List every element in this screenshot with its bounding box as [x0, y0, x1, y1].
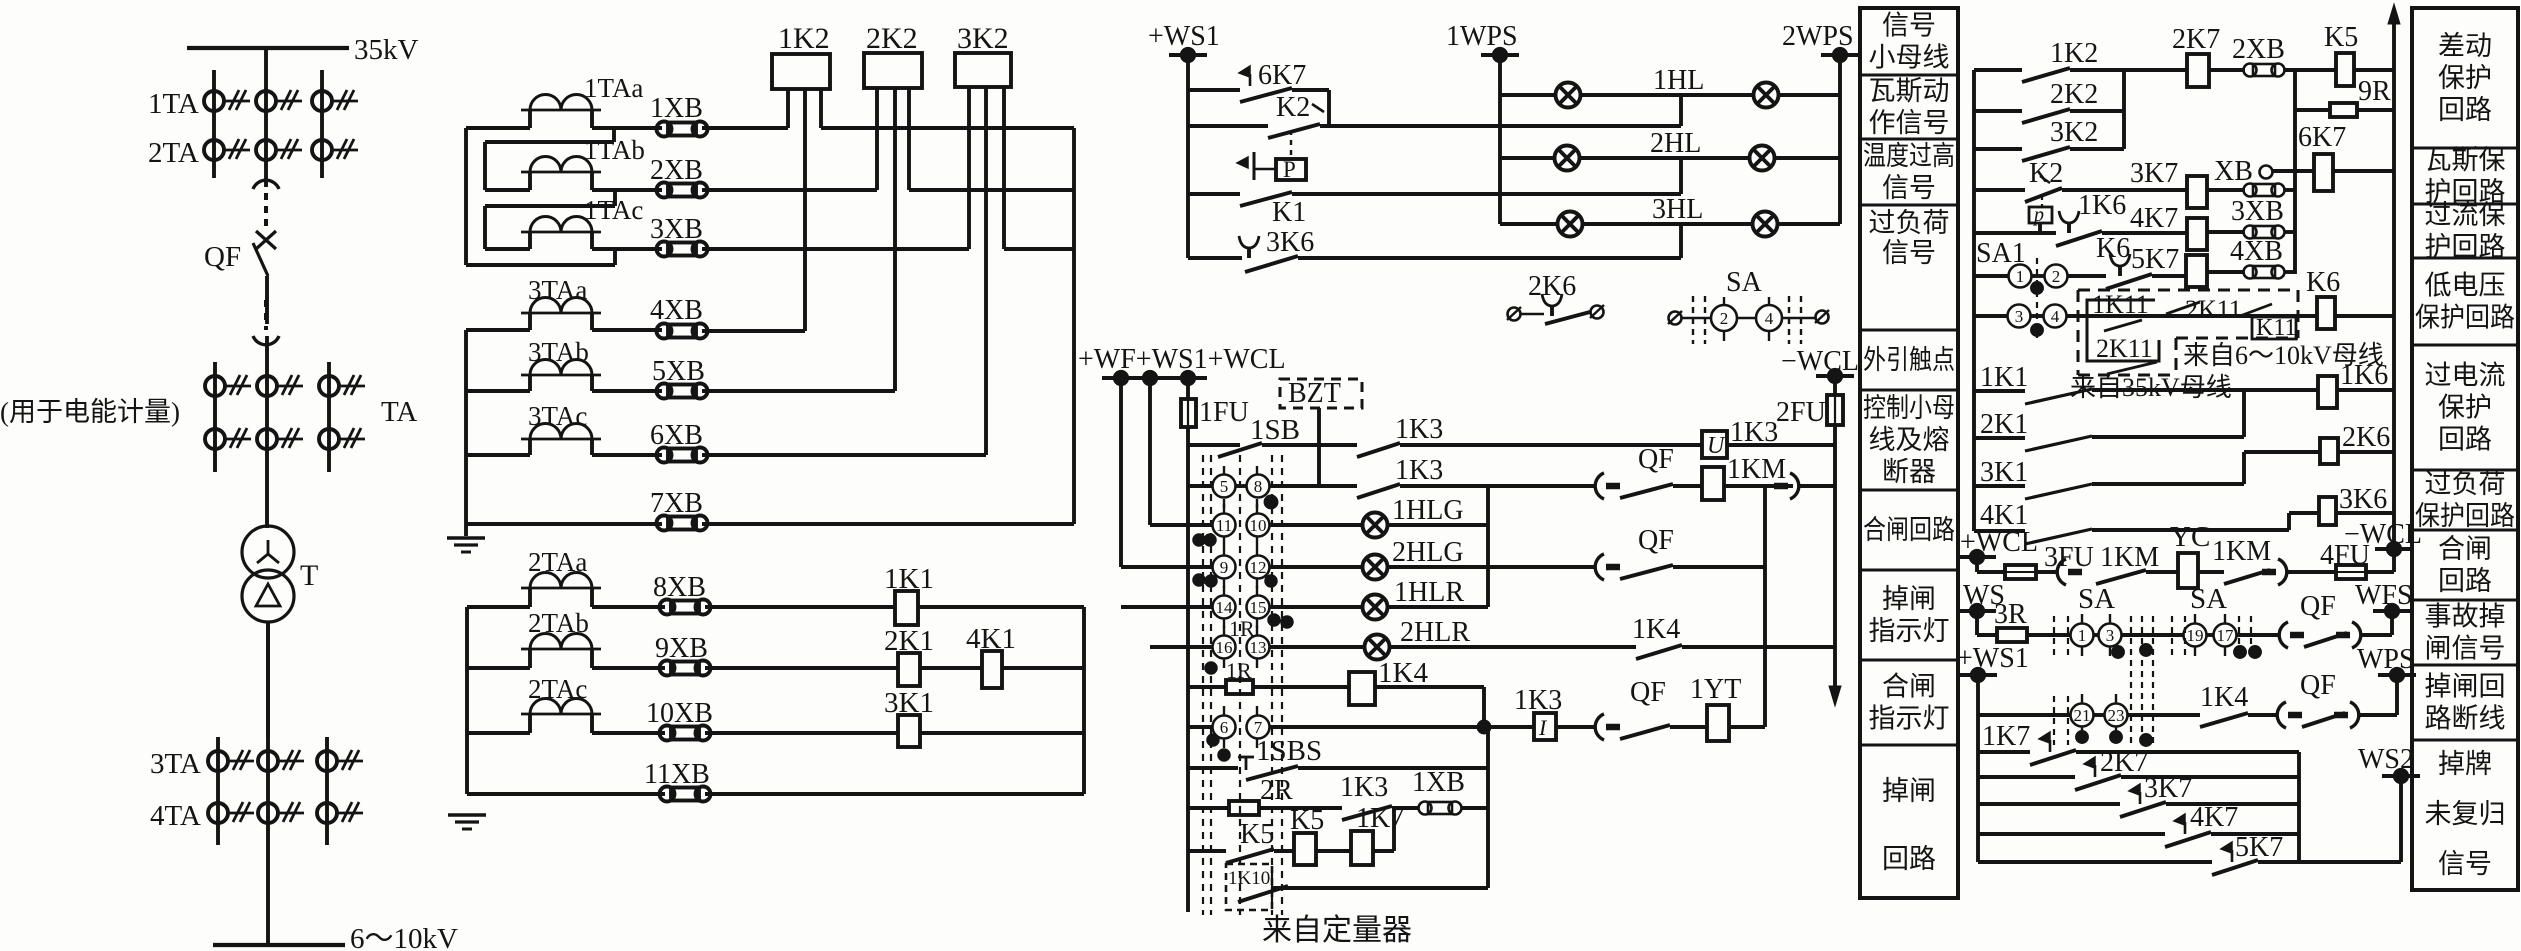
current transformer 3TA b: [258, 751, 278, 771]
svg-text:−WCL: −WCL: [1781, 346, 1859, 377]
svg-text:3TA: 3TA: [150, 748, 201, 780]
relay coil 3K6: [2319, 497, 2336, 525]
wire to 4FU: [2288, 570, 2336, 574]
junction dot 8 below: [1266, 497, 1277, 508]
svg-text:9R: 9R: [2358, 76, 2391, 107]
wire 1K7 right: [2076, 750, 2299, 754]
wire 1K2 pin1: [786, 89, 790, 128]
wire 7 to junction: [1269, 725, 1484, 729]
svg-text:16: 16: [1216, 638, 1233, 657]
resistor 9R: [2330, 103, 2357, 117]
wire sa to 19: [2121, 633, 2184, 637]
contact 4K7 signal: [2174, 814, 2185, 825]
wire signal plus bus: [1972, 70, 1976, 531]
wire 7XB row left: [466, 522, 662, 526]
wire 11XB row left: [467, 792, 665, 796]
svg-text:K1: K1: [1272, 197, 1306, 228]
wire to metering CTs: [265, 336, 269, 362]
svg-text:K5: K5: [2324, 22, 2358, 53]
switch SA contact 8: [1247, 475, 1270, 498]
contact 2K11 upper: [2166, 302, 2200, 314]
wire 3TA column left: [216, 737, 220, 845]
svg-text:K11: K11: [2256, 315, 2296, 341]
wire 3K1 row: [2092, 482, 2244, 486]
wire 4XB to vertical: [2284, 270, 2295, 274]
switch SA grid ticks control: [1223, 466, 1225, 475]
breaker aux QF trip: [1595, 714, 1604, 740]
switch SA contact 16: [1213, 636, 1236, 659]
wire 9-12 row left: [1121, 565, 1213, 569]
current transformer 1TA phase A: [204, 91, 224, 111]
wire 4K7 to 3XB: [2207, 230, 2245, 234]
current transformer 2TA phase A: [204, 140, 224, 160]
metering CT row1 b: [257, 376, 277, 396]
lamp 1HLR: [1363, 595, 1388, 620]
terminal link 1XB: [657, 122, 672, 137]
wire +WCL below fuse: [1186, 427, 1190, 912]
svg-text:信号: 信号: [1882, 238, 1936, 268]
wire +WCL down: [1975, 557, 1979, 572]
wire 3TAc leads: [528, 439, 532, 455]
svg-text:合闸: 合闸: [1882, 672, 1936, 702]
wire 3XB to vertical: [2284, 230, 2295, 234]
svg-text:断器: 断器: [1882, 457, 1936, 487]
svg-text:未复归: 未复归: [2425, 799, 2506, 829]
svg-text:3: 3: [2015, 307, 2024, 326]
CT winding 1TAa: [521, 109, 601, 112]
relay coil 3K1: [898, 715, 920, 747]
svg-text:6: 6: [1220, 718, 1229, 737]
wire 2K6 row: [2244, 450, 2320, 454]
wire 17 to QF: [2236, 633, 2280, 637]
svg-text:1K4: 1K4: [1378, 657, 1428, 689]
wire K2 row: [1188, 124, 1268, 128]
wire 2K2 pin1: [875, 88, 879, 190]
svg-text:BZT: BZT: [1288, 378, 1341, 409]
svg-text:QF: QF: [204, 241, 241, 273]
lamp 2HLG: [1363, 555, 1388, 580]
wire 1TAc right lead: [590, 232, 594, 249]
wire 3K6 row: [2289, 511, 2319, 515]
wire 2WPS vertical: [1838, 55, 1842, 224]
wire sa gap1: [2093, 633, 2099, 637]
svg-text:控制小母: 控制小母: [1863, 393, 1955, 423]
node WS2: [2382, 774, 2420, 778]
svg-text:10XB: 10XB: [646, 698, 713, 729]
svg-text:回路: 回路: [2438, 95, 2492, 125]
switch SA1 contact 4: [2044, 305, 2067, 328]
contact K11: [2240, 304, 2272, 316]
contact 1K11: [2104, 320, 2142, 331]
svg-text:回路: 回路: [1882, 844, 1936, 874]
svg-text:10: 10: [1250, 516, 1267, 535]
wire 1XB row to 1K2: [702, 126, 788, 130]
wire 3TA star bus: [464, 330, 468, 536]
wire 4 to K11 box: [2066, 314, 2317, 318]
svg-text:信号: 信号: [1882, 173, 1936, 203]
wire drop K2 to 1HL: [1679, 95, 1683, 126]
svg-text:5K7: 5K7: [2131, 244, 2179, 275]
relay 1K10 dashed box: [1226, 864, 1272, 910]
wire 21-23 gap: [2093, 713, 2105, 717]
fuse 4FU: [2336, 565, 2366, 579]
wire 1K6 row: [1974, 231, 2056, 235]
fuse 2FU: [1827, 395, 1843, 425]
wire 1K1 stub: [1974, 389, 2025, 393]
svg-text:SA: SA: [1726, 267, 1763, 298]
svg-text:2K7: 2K7: [2172, 24, 2220, 55]
wire 1K3 to 1XB: [1392, 806, 1418, 810]
contact K5: [1226, 849, 1274, 863]
pushbutton 1SB: [1218, 443, 1262, 457]
wire 9XB row: [705, 666, 898, 670]
thermal sensor element: [1253, 152, 1256, 180]
wire 4FU to -WCL: [2366, 570, 2394, 574]
breaker QF cross mark: [256, 231, 276, 249]
svg-text:3R: 3R: [1994, 599, 2027, 630]
svg-text:1K11: 1K11: [2092, 290, 2149, 319]
wire K1 to 2HL drop: [1292, 192, 1681, 196]
contact 6K7: [1239, 66, 1250, 77]
wire 6K7 to bus: [2333, 169, 2394, 173]
svg-text:4XB: 4XB: [650, 295, 703, 326]
node +WS1: [1169, 53, 1207, 57]
wire 5K7 to 4XB: [2207, 270, 2245, 274]
terminal link 1XB small: [1419, 802, 1432, 815]
switch SA contact 9: [1213, 556, 1236, 579]
wire K1 row: [1188, 192, 1240, 196]
wire XB to 6K7: [2273, 169, 2314, 173]
terminal link 11XB: [660, 787, 675, 802]
wire link to vertical: [2284, 188, 2295, 192]
relay coil 1K3 U: [1702, 431, 1727, 458]
wire K7 ladder vertical: [2297, 752, 2301, 862]
svg-text:指示灯: 指示灯: [1869, 616, 1950, 646]
svg-text:过负荷: 过负荷: [1869, 208, 1950, 238]
svg-text:13: 13: [1250, 638, 1267, 657]
wire transformer to 3TA: [266, 622, 270, 737]
breaker aux QF wps: [2277, 702, 2286, 728]
fuse 1FU: [1181, 399, 1196, 427]
svg-text:K2: K2: [1276, 92, 1310, 123]
wire 1TA-3TA return bus: [1072, 128, 1076, 524]
svg-text:15: 15: [1250, 598, 1267, 617]
svg-text:1HLG: 1HLG: [1392, 495, 1464, 526]
wire 1K2 row: [1974, 68, 2022, 72]
svg-text:过电流: 过电流: [2425, 361, 2506, 391]
svg-text:6K7: 6K7: [2298, 122, 2346, 153]
wire +WS1 vertical control: [1148, 378, 1152, 525]
contactor coil 1KM: [1702, 467, 1724, 500]
svg-text:2TAb: 2TAb: [528, 608, 589, 638]
wire 2K1 stub: [1974, 436, 2025, 440]
svg-text:1K3: 1K3: [1514, 685, 1562, 716]
switch SA trip 19: [2184, 624, 2207, 647]
wire 1HLG right: [1388, 523, 1488, 527]
switch SA1 contact 2: [2045, 265, 2068, 288]
spare switch SA contacts: [1669, 312, 1682, 325]
svg-text:1SB: 1SB: [1250, 414, 1300, 446]
svg-text:4: 4: [2051, 307, 2060, 326]
wire 6K7 branch: [1188, 88, 1240, 92]
svg-text:1: 1: [2016, 267, 2025, 286]
wire +WS1 vertical: [1186, 55, 1190, 258]
contact K2 temperature: [1268, 124, 1320, 138]
ground 2TA star: [448, 813, 486, 816]
contact 1K3 relay: [1342, 806, 1392, 820]
switch SA position dots: [1194, 535, 1204, 545]
wire 1TAb left lead: [528, 172, 532, 190]
wire 3R to SA: [2027, 633, 2071, 637]
wire 2K6 to bus: [2338, 450, 2394, 454]
relay coil 2K2: [864, 53, 922, 88]
switch SA contact 12: [1247, 556, 1270, 579]
ground 3TA star: [447, 536, 485, 539]
wire WS2 riser: [2399, 776, 2403, 862]
wire K2 row right: [1974, 188, 2025, 192]
svg-text:1K10: 1K10: [1228, 868, 1270, 889]
wire 1K2 pin3: [819, 89, 823, 128]
node WFS: [2373, 609, 2411, 613]
wire 1SBS right: [1298, 766, 1488, 770]
wire 8 to 1K3: [1269, 484, 1357, 488]
wire 3FU to 1KM: [2036, 570, 2058, 574]
switch SA contact 6: [1213, 716, 1236, 739]
wire 12 to lamp: [1269, 565, 1362, 569]
lamp 1HL white left: [1556, 83, 1581, 108]
wire 1K7 up to 2R row: [1373, 849, 1394, 853]
relay coil 2K6: [2320, 438, 2338, 464]
wire K5 row left: [1188, 849, 1226, 853]
CT winding 1TAb: [521, 171, 601, 174]
svg-text:小母线: 小母线: [1869, 43, 1950, 73]
svg-text:瓦斯动: 瓦斯动: [1869, 76, 1950, 106]
contact 1K3 closing: [1357, 443, 1400, 457]
svg-text:1TA: 1TA: [148, 88, 199, 120]
wire 3XB row to 3K2: [702, 247, 969, 251]
wire 1K2 to 2K7: [2070, 68, 2187, 72]
wire 3K1 to bus: [920, 731, 1084, 735]
wire 5-8 row left: [1188, 484, 1213, 488]
wire 5K7 right: [2258, 860, 2401, 864]
wire SA1 row1: [1974, 274, 2009, 278]
svg-text:低电压: 低电压: [2425, 271, 2506, 301]
resistor 3R: [1997, 628, 2027, 642]
svg-text:1SBS: 1SBS: [1256, 735, 1322, 767]
wire 1K7 row: [1978, 750, 2030, 754]
terminal link 3XB right: [2244, 226, 2257, 239]
terminal link 4XB: [657, 324, 672, 339]
bus 35kV: [187, 46, 349, 50]
svg-text:1K3: 1K3: [1340, 772, 1388, 803]
current transformer 3TA a: [208, 751, 228, 771]
wire K6 to 5K7: [2152, 274, 2186, 278]
svg-text:合闸: 合闸: [2438, 534, 2492, 564]
wire signal return bus with arrow: [2392, 14, 2396, 549]
switch SA trip 21: [2071, 704, 2094, 727]
wire 1SB row: [1188, 443, 1240, 447]
svg-text:2K6: 2K6: [1528, 271, 1576, 302]
wire 2K7 right: [2121, 775, 2299, 779]
wire to YC: [2146, 570, 2178, 574]
current transformer 1TA phase B: [256, 91, 276, 111]
wire 4K7 right: [2211, 832, 2299, 836]
svg-text:WPS: WPS: [2357, 644, 2415, 675]
svg-text:掉牌: 掉牌: [2438, 749, 2492, 779]
svg-text:2XB: 2XB: [2232, 34, 2285, 65]
wire K7 collect vertical: [2293, 70, 2297, 274]
drawout contact upper: [253, 180, 279, 189]
svg-text:1K3: 1K3: [1395, 455, 1443, 486]
svg-text:2K2: 2K2: [2050, 79, 2098, 110]
wire 3HL row mid: [1583, 222, 1752, 226]
relay coil 1K2: [772, 54, 830, 89]
svg-text:23: 23: [2108, 706, 2125, 725]
wire 2K7 row: [1978, 775, 2075, 779]
arrow -WCL down: [1829, 686, 1841, 706]
svg-text:9XB: 9XB: [655, 633, 708, 664]
wire 5-8 gap: [1235, 484, 1247, 488]
svg-text:1KM: 1KM: [2212, 536, 2271, 567]
wire 3K7 to link: [2207, 188, 2245, 192]
svg-text:1TAa: 1TAa: [584, 73, 643, 103]
relay coil 1K1: [895, 591, 918, 625]
wire drop K1 to 2HL: [1679, 158, 1683, 194]
wire 1K2 out to return bus: [821, 126, 1074, 130]
wire 1TAc left lead: [528, 232, 532, 249]
wire K5 to coil: [1274, 849, 1294, 853]
wire lamp return vertical: [1486, 486, 1490, 607]
wire 4K1 row: [2092, 528, 2289, 532]
node +WCL: [1169, 376, 1207, 380]
svg-text:2K1: 2K1: [884, 625, 934, 657]
wire 2TA return bus: [1082, 607, 1086, 794]
wire 2TAc leads: [528, 714, 532, 733]
wire QF to 1YT: [1670, 725, 1707, 729]
contact 4K1 trip: [2025, 529, 2092, 544]
svg-text:差动: 差动: [2438, 31, 2492, 61]
lamp 2HLR: [1365, 635, 1390, 660]
svg-text:3HL: 3HL: [1652, 194, 1703, 225]
wire WS down: [1975, 611, 1979, 635]
wire 3K2 pin1: [967, 87, 971, 249]
terminal link 6XB: [657, 448, 672, 463]
switch SA contact 11: [1213, 514, 1236, 537]
svg-text:WS2: WS2: [2358, 744, 2414, 775]
terminal link 8XB: [660, 600, 675, 615]
wire 2R row left: [1188, 806, 1229, 810]
svg-text:闸信号: 闸信号: [2425, 634, 2506, 664]
svg-text:K2: K2: [2029, 158, 2063, 189]
contact 1K1 trip: [2025, 389, 2092, 404]
switch SA contact 14: [1213, 596, 1236, 619]
svg-text:12: 12: [1250, 558, 1267, 577]
metering CT row1 c: [319, 376, 339, 396]
plug contact trip: [2057, 559, 2066, 585]
svg-text:1FU: 1FU: [1199, 397, 1249, 428]
svg-text:1: 1: [2078, 626, 2087, 645]
svg-text:合闸回路: 合闸回路: [1863, 515, 1955, 545]
svg-text:作信号: 作信号: [1869, 108, 1950, 138]
label column signal bus: [1860, 8, 1958, 898]
svg-text:19: 19: [2187, 626, 2204, 645]
current transformer 3TA c: [317, 751, 337, 771]
svg-text:1K4: 1K4: [1632, 614, 1680, 645]
relay coil 1K3 I: [1534, 713, 1556, 740]
wire YC to 1KM b: [2198, 570, 2224, 574]
svg-text:1K7: 1K7: [1356, 803, 1404, 834]
wire 1K10 row: [1272, 886, 1488, 890]
CT winding 2TAc: [521, 713, 601, 716]
relay coil 6K7: [2314, 154, 2333, 191]
svg-text:14: 14: [1216, 598, 1234, 617]
relay coil K6: [2317, 297, 2335, 329]
svg-text:3FU: 3FU: [2044, 542, 2094, 573]
svg-text:QF: QF: [2300, 591, 2336, 622]
wire 1SB to 1K3: [1262, 443, 1357, 447]
svg-text:4TA: 4TA: [150, 800, 201, 832]
svg-text:2K2: 2K2: [866, 22, 918, 55]
svg-text:3TAc: 3TAc: [528, 401, 587, 431]
wire U coil to -WCL bus: [1727, 443, 1835, 447]
wire -WCL bus with arrow: [1833, 425, 1837, 692]
node 1WPS: [1481, 53, 1519, 57]
switch SA contact 7: [1247, 716, 1270, 739]
svg-text:5XB: 5XB: [652, 356, 705, 387]
svg-text:外引触点: 外引触点: [1863, 345, 1955, 375]
wire BZT vertical: [1317, 408, 1321, 486]
svg-text:QF: QF: [2300, 670, 2336, 701]
contact 1K4 alarm: [2200, 713, 2248, 727]
wire 3TA column right: [325, 737, 329, 845]
contact 2K2: [2022, 109, 2070, 123]
svg-text:5: 5: [1220, 477, 1229, 496]
wire 2K1 row: [2092, 435, 2244, 439]
wire 16-13 row left: [1150, 645, 1213, 649]
contact 2K1 trip: [2025, 436, 2092, 451]
svg-text:2K1: 2K1: [1980, 409, 2028, 440]
wire 3K7 row: [1978, 802, 2120, 806]
wire below QF: [265, 276, 269, 324]
breaker aux QF alarm: [2279, 622, 2288, 648]
wire 15 to lamp: [1269, 605, 1362, 609]
svg-text:保护回路: 保护回路: [2415, 303, 2515, 333]
wire 7XB row right: [702, 522, 1074, 526]
svg-text:1K7: 1K7: [1982, 721, 2030, 752]
CT winding 3TAc: [521, 438, 601, 441]
switch SA contact 15: [1247, 596, 1270, 619]
wire trip return vertical: [1763, 486, 1767, 727]
svg-text:事故掉: 事故掉: [2425, 602, 2506, 632]
svg-text:K6: K6: [2306, 267, 2340, 298]
svg-text:2FU: 2FU: [1776, 397, 1826, 428]
current transformer 4TA a: [208, 803, 228, 823]
svg-text:3XB: 3XB: [2231, 196, 2284, 227]
wire CT column left: [212, 70, 216, 178]
relay coil 1K6: [2318, 376, 2337, 408]
svg-text:过负荷: 过负荷: [2425, 469, 2506, 499]
trip coil 1YT: [1707, 705, 1729, 741]
wire 1XB right: [1462, 806, 1488, 810]
relay coil 4K1: [982, 651, 1002, 688]
plug contact closing: [1774, 483, 1788, 490]
breaker aux QF closing: [1595, 473, 1604, 499]
lamp 1HLG: [1363, 513, 1388, 538]
wire 1HL row right: [1779, 93, 1840, 97]
svg-text:信号: 信号: [2438, 849, 2492, 879]
SA1 dot b: [2032, 325, 2042, 335]
wire 3K6 row: [1188, 256, 1242, 260]
